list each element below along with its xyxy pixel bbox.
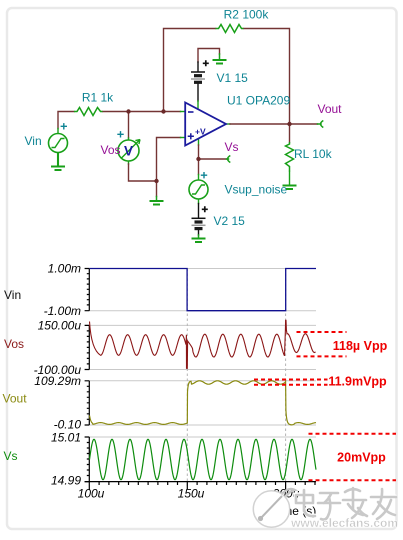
plus mark V1: [203, 60, 209, 66]
ground below voltmeter branch: [150, 201, 164, 205]
svg-text:109.29m: 109.29m: [34, 374, 81, 388]
wire output to Vout terminal: [230, 123, 318, 125]
y-axis Vout: [85, 381, 90, 425]
resistor R2: [216, 25, 244, 33]
wire V2 bottom to ground: [198, 229, 200, 235]
wire ground stub below node: [156, 197, 158, 201]
svg-text:20mVpp: 20mVpp: [337, 450, 386, 464]
wire V1 bottom to op-amp top pin: [197, 84, 199, 102]
svg-text:-0.10: -0.10: [54, 417, 82, 431]
terminal Vs: [228, 156, 231, 163]
svg-text:Vos: Vos: [101, 143, 121, 157]
dashed gridline 200u: [285, 269, 287, 490]
ground below V2: [192, 239, 206, 243]
ground below RL: [283, 186, 297, 190]
watermark: [253, 487, 398, 530]
wire Vout terminal lead: [318, 123, 322, 125]
plus mark V2: [202, 206, 208, 212]
svg-text:Vsup_noise: Vsup_noise: [225, 183, 288, 197]
axes: [85, 269, 316, 490]
svg-text:118µ Vpp: 118µ Vpp: [333, 339, 388, 353]
battery V2: [192, 218, 206, 228]
junction node minus input / feedback: [161, 109, 165, 113]
resistor R1: [74, 108, 103, 116]
op-amp U1: [185, 103, 226, 146]
wire op-amp output lead: [226, 123, 231, 125]
wire Vin top to R1: [58, 112, 74, 129]
wire plus input lead: [181, 137, 186, 139]
wire R2 right to output node: [244, 29, 290, 125]
wire voltmeter branch down from minus node: [128, 112, 130, 139]
svg-text:V1 15: V1 15: [217, 71, 249, 85]
junction node output: [287, 122, 291, 126]
y-axis Vin: [85, 269, 90, 311]
voltmeter Vos: [118, 140, 139, 161]
plus mark Vos: [117, 131, 123, 137]
svg-text:Vos: Vos: [4, 337, 24, 351]
plus mark Vsup_noise: [201, 172, 207, 178]
wire voltmeter top lead: [128, 138, 130, 141]
y-axis Vos: [85, 325, 90, 369]
wire R1 right to op-amp minus input: [103, 111, 181, 113]
y-axis Vs: [85, 437, 90, 482]
svg-text:100u: 100u: [78, 487, 105, 501]
junction node plus input branch: [154, 179, 158, 183]
svg-text:Vout: Vout: [3, 391, 28, 405]
svg-text:U1 OPA209: U1 OPA209: [227, 94, 290, 108]
junction node Vs: [196, 157, 200, 161]
gridline Vin bottom: [89, 310, 316, 312]
svg-text:R2 100k: R2 100k: [224, 8, 270, 22]
trace Vout: [90, 381, 317, 425]
wire Vs terminal lead: [227, 158, 229, 160]
wire V2 ground stub: [198, 235, 200, 238]
trace Vin: [90, 269, 317, 311]
svg-text:150.00u: 150.00u: [38, 319, 82, 333]
wire Vsup_noise top lead: [198, 175, 200, 181]
annotation dashes Vos: [254, 332, 396, 480]
svg-text:V2 15: V2 15: [214, 214, 246, 228]
annotation dashes Vs: [309, 433, 397, 435]
svg-text:Vin: Vin: [4, 288, 21, 302]
wire op-amp bottom pin lead: [198, 140, 200, 146]
wire node to op-amp plus input: [157, 138, 181, 182]
svg-text:14.99: 14.99: [51, 474, 81, 488]
resistor RL: [286, 142, 294, 172]
dashed gridline 150u: [186, 269, 188, 490]
svg-text:www.elecfans.com: www.elecfans.com: [290, 516, 398, 530]
svg-text:11.9mVpp: 11.9mVpp: [328, 374, 387, 388]
svg-text:1.00m: 1.00m: [48, 262, 81, 276]
source Vin: [49, 134, 68, 153]
annotation dashes Vout: [254, 379, 328, 381]
svg-text:RL 10k: RL 10k: [294, 147, 333, 161]
wire Vs node down to Vsup_noise: [198, 159, 200, 175]
gridline Vos bottom: [89, 369, 316, 371]
wire V1 top terminal: [197, 62, 199, 71]
wire feedback left vertical and top to R2: [164, 29, 216, 112]
wire voltmeter bottom lead: [128, 161, 130, 164]
svg-text:Vs: Vs: [4, 449, 18, 463]
x-axis major ticks: [89, 482, 285, 490]
wire minus input lead: [181, 111, 186, 113]
wire RL bottom lead to ground: [289, 172, 291, 186]
ground below Vin: [51, 153, 65, 171]
wire Vsup_noise bottom to V2: [198, 199, 200, 204]
svg-text:Vs: Vs: [224, 140, 238, 154]
wire op-amp top supply pin: [197, 101, 199, 109]
trace Vos: [90, 320, 316, 368]
x-axis minor ticks: [99, 482, 315, 485]
wire RL top lead: [289, 124, 291, 142]
plus mark Vin: [61, 123, 67, 129]
gridline Vout top: [89, 380, 316, 382]
gridline Vout bottom: [89, 424, 316, 426]
svg-text:15.01: 15.01: [51, 430, 81, 444]
svg-text:V: V: [124, 144, 133, 159]
trace Vs: [90, 439, 317, 479]
wire V1 top corner to ground: [198, 49, 220, 63]
x-axis: [85, 481, 316, 483]
wire node down to ground: [156, 181, 158, 197]
svg-text:-1.00m: -1.00m: [44, 304, 81, 318]
svg-text:150u: 150u: [178, 487, 205, 501]
wire V1 ground stub: [219, 54, 221, 60]
gridline Vin top: [89, 268, 316, 270]
junction node minus input / voltmeter: [126, 109, 130, 113]
svg-text:R1 1k: R1 1k: [82, 91, 114, 105]
svg-text:+V: +V: [195, 127, 206, 137]
ground right of V1: [213, 60, 227, 64]
wire Vs node to terminal: [199, 158, 227, 160]
gridline Vos top: [89, 324, 316, 326]
wire Vin source top lead: [57, 129, 59, 134]
svg-text:Vin: Vin: [25, 134, 42, 148]
gridline Vs top: [89, 436, 316, 438]
svg-text:Vout: Vout: [317, 102, 342, 116]
wire V2 top terminal: [198, 204, 200, 218]
terminal Vout: [321, 121, 324, 128]
source Vsup_noise: [189, 180, 208, 199]
battery V1: [191, 72, 205, 82]
wire bottom pin to Vs node: [198, 145, 200, 159]
wire voltmeter bottom to node below: [129, 164, 157, 181]
